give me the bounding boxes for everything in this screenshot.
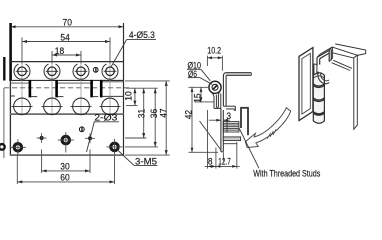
stud circle 3 <box>71 98 92 115</box>
pivot ext left <box>189 86 209 88</box>
stud circle 2 <box>42 98 63 115</box>
label Ø6 leader <box>188 78 212 85</box>
svg-text:30: 30 <box>60 162 69 172</box>
svg-text:8: 8 <box>208 156 213 166</box>
svg-text:12.7: 12.7 <box>218 156 231 166</box>
swoosh rotate arrow <box>245 108 290 148</box>
lower leaf plate <box>220 108 222 151</box>
right ext strip bottom <box>125 80 170 82</box>
top strip top edge <box>10 61 124 63</box>
dim 3 line left <box>209 119 221 121</box>
upper leaf plate B <box>218 91 220 107</box>
svg-text:3: 3 <box>226 111 231 121</box>
dim 70 arrows <box>11 25 16 28</box>
upper leaf plate A <box>212 93 214 108</box>
ledge right <box>223 105 235 107</box>
stud circle 1 <box>12 98 33 115</box>
hole centerline col 1 <box>21 63 23 113</box>
svg-text:10.2: 10.2 <box>207 46 221 56</box>
right ext hole row 36 <box>125 146 158 148</box>
dim 54 ext lines <box>21 38 23 64</box>
swoosh speed ticks <box>267 129 276 139</box>
dim 10.2 line <box>207 57 222 59</box>
dim 60 line <box>17 181 114 183</box>
lower leaf stud-row line <box>10 113 124 115</box>
threaded hole M5 3 <box>107 139 123 155</box>
3d right plate front edge <box>354 55 358 129</box>
dim 36 arrows <box>154 88 157 93</box>
top strip bottom edge <box>10 79 124 81</box>
with-threaded-studs leader <box>239 129 259 169</box>
leaf left edge (thick) <box>9 23 12 81</box>
svg-text:70: 70 <box>63 18 72 28</box>
cropped edge bar far left <box>3 57 5 81</box>
svg-text:With Threaded Studs: With Threaded Studs <box>253 168 320 178</box>
dim 15 ext <box>195 101 214 103</box>
stud circle 4 <box>100 98 121 115</box>
3d leaf curl over barrel <box>318 72 329 84</box>
dim 70 line <box>11 26 124 28</box>
svg-text:3-M5: 3-M5 <box>135 156 157 166</box>
top bar leaf <box>226 72 252 74</box>
dim 3 line right <box>223 119 230 121</box>
dim 36 line <box>154 88 156 147</box>
note symbol circled-1 top <box>93 67 98 72</box>
cropped M5 ring at image edge <box>0 144 5 150</box>
leaf left edge lower <box>9 81 11 156</box>
dim 54 line <box>22 41 110 43</box>
dim 15 line <box>200 87 202 102</box>
3d leaf ribbon bottom edge <box>332 60 352 70</box>
dim 60 arrows <box>17 180 22 183</box>
label 3-M5 leader <box>117 150 158 166</box>
knuckle bar 3 <box>90 80 93 98</box>
dim 8 / 12.7 line <box>205 165 240 167</box>
3d tab-to-plate link upper <box>333 53 354 58</box>
right ext pivot <box>126 87 158 89</box>
svg-text:54: 54 <box>60 32 69 42</box>
svg-text:2-Ø3: 2-Ø3 <box>94 113 117 123</box>
lower leaf bottom edge <box>10 154 124 156</box>
3d knuckle band 2 <box>313 98 324 102</box>
hole 2-Ø3 right <box>85 133 95 143</box>
3d left plate outer <box>299 48 313 121</box>
diagonal break line <box>200 121 221 150</box>
label 2-Ø3 leader <box>87 122 120 152</box>
dim 31 arrows <box>142 88 145 93</box>
svg-text:42: 42 <box>183 110 193 119</box>
3d knuckle band 1 <box>313 84 324 88</box>
arrowheads front view <box>11 25 168 183</box>
dim 42 line <box>191 87 193 152</box>
side arrows <box>191 56 237 167</box>
bottom dim ext lines <box>207 110 209 169</box>
knuckle bar 4 <box>100 80 103 98</box>
dim 30 line <box>42 170 90 172</box>
note symbol circled-1 bottom <box>79 127 84 132</box>
dim 30 arrows <box>42 169 47 172</box>
dim 47 arrows <box>165 81 168 86</box>
right ext stud row <box>126 105 138 107</box>
svg-text:47: 47 <box>159 108 169 117</box>
hole centerline col 3 <box>80 63 82 113</box>
svg-text:31: 31 <box>137 109 147 118</box>
svg-text:4-Ø5.3: 4-Ø5.3 <box>129 30 155 40</box>
barrel pin circle <box>212 84 218 90</box>
plate face stub below <box>222 152 224 161</box>
3d folded tab back bar <box>317 47 333 62</box>
svg-text:36: 36 <box>149 109 159 118</box>
svg-text:18: 18 <box>55 46 64 56</box>
lower leaf edge foot segments <box>10 95 14 97</box>
threaded stud upper <box>223 122 239 132</box>
knuckle segment line mid <box>57 82 92 84</box>
leaf right edge <box>123 23 125 156</box>
dim 10 line <box>134 88 136 105</box>
svg-text:Ø6: Ø6 <box>188 69 197 79</box>
dim 31 line <box>143 88 145 138</box>
3d barrel top cap line <box>313 76 324 79</box>
right ext hole row 31 <box>125 137 146 139</box>
threaded hole M5 2 <box>58 132 74 152</box>
svg-text:15: 15 <box>193 93 203 102</box>
right ext bottom edge <box>125 154 170 156</box>
3d right plate top face <box>333 44 366 56</box>
label 4-Ø5.3 leader <box>111 40 156 67</box>
svg-text:60: 60 <box>60 173 69 183</box>
knuckle bar 2 <box>55 80 58 98</box>
knuckle segment line left <box>10 82 29 84</box>
hole centerline col 4 <box>109 63 111 113</box>
dim 30 ext lines <box>41 150 43 174</box>
3d pin neck <box>314 64 317 75</box>
barrel outer circle <box>209 81 221 93</box>
svg-text:10: 10 <box>124 91 134 100</box>
3d barrel body <box>313 73 324 124</box>
3d folded tab top bar <box>317 49 331 61</box>
3d left plate inner frame <box>302 53 310 114</box>
knuckle bar 1 <box>29 80 32 98</box>
countersunk hole 1 <box>14 64 30 79</box>
dim 18 ext lines <box>51 51 53 64</box>
hole centerline col 2 <box>51 63 53 113</box>
countersunk hole 2 <box>44 64 60 79</box>
countersunk hole 4 <box>102 64 118 79</box>
threaded stud lower <box>223 137 240 144</box>
dim 60 ext lines <box>16 156 18 184</box>
top bar bend leg <box>223 73 225 107</box>
dim 47 line <box>165 81 167 155</box>
cropped edge thin line far left <box>3 88 5 158</box>
dim 10.2 ext lines <box>206 56 208 66</box>
dim 10 arrows <box>133 88 136 93</box>
knuckle segment line right <box>102 81 124 83</box>
hole 2-Ø3 left <box>37 133 47 143</box>
countersunk hole 3 <box>73 64 89 79</box>
label Ø10 leader <box>187 69 210 81</box>
threaded hole M5 1 <box>10 139 26 155</box>
3d folded tab front leg <box>317 57 320 65</box>
dim 18 line <box>52 54 81 56</box>
dim 18 arrows <box>52 54 57 57</box>
3d knuckle band 3 <box>313 112 324 116</box>
step jog <box>214 107 221 109</box>
frame channel piece <box>240 108 249 135</box>
dim 54 arrows <box>22 40 27 43</box>
bottom ext left <box>189 151 219 153</box>
pivot axis dashed centerline <box>4 87 129 89</box>
pin slash <box>213 85 218 90</box>
